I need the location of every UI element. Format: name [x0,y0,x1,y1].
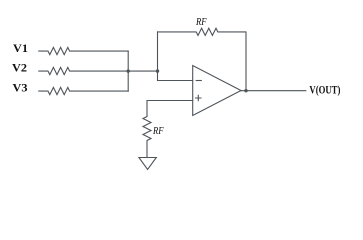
svg-text:V1: V1 [13,41,28,55]
svg-text:V(OUT): V(OUT) [309,82,340,96]
svg-text:V3: V3 [13,81,28,95]
svg-text:RF: RF [152,126,164,137]
svg-text:RF: RF [195,17,207,28]
svg-text:V2: V2 [12,61,27,75]
